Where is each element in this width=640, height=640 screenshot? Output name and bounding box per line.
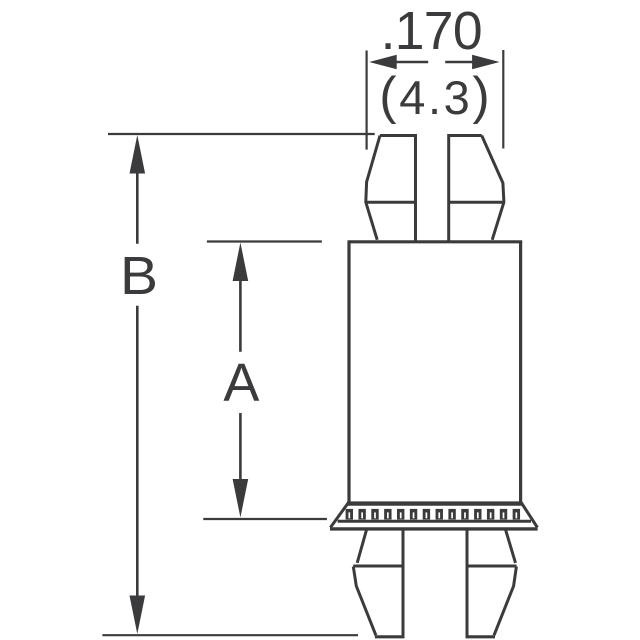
bottom leg right inner edge xyxy=(466,529,469,637)
flange serration teeth xyxy=(346,509,520,520)
A dimension arrowhead bottom xyxy=(233,479,249,518)
extension line top of B dimension xyxy=(108,133,375,135)
A dimension line upper shaft xyxy=(239,280,242,352)
B dimension arrowhead top xyxy=(130,135,146,174)
spacer body right edge xyxy=(519,242,522,503)
bottom leg right bottom edge xyxy=(466,635,496,638)
dimension line .170 left segment xyxy=(395,61,428,64)
spacer body left edge xyxy=(347,242,350,503)
extension line right of .170 dimension xyxy=(502,50,504,149)
arrowhead right of .170 dimension xyxy=(472,55,500,69)
bottom leg left barb ledge xyxy=(353,565,403,568)
bottom leg left lower outer edge xyxy=(353,567,376,636)
B dimension line upper shaft xyxy=(136,172,139,244)
spacer body top edge xyxy=(348,240,523,243)
svg-text:B: B xyxy=(120,246,158,306)
flange top band (body bottom edge) xyxy=(347,501,522,505)
flange serration tooth slits xyxy=(348,512,517,518)
bottom leg left neck outer edge xyxy=(357,530,366,563)
flange right slant edge xyxy=(521,503,537,528)
top prong right barb ledge xyxy=(449,201,504,204)
flange bottom edge xyxy=(330,527,538,530)
B dimension line lower shaft xyxy=(136,306,139,597)
top prong right outline xyxy=(449,136,504,242)
extension line top of A dimension xyxy=(207,240,322,242)
dimension line .170 right segment xyxy=(445,61,474,64)
svg-text:.170: .170 xyxy=(381,2,483,61)
svg-text:(4.3): (4.3) xyxy=(379,67,492,125)
flange mid line under teeth xyxy=(338,520,531,523)
bottom leg right neck outer edge xyxy=(506,530,516,563)
top prong left outline xyxy=(366,136,416,242)
top prong left barb ledge xyxy=(366,201,416,204)
bottom leg left bottom edge xyxy=(375,635,405,638)
svg-text:A: A xyxy=(223,353,259,413)
bottom leg right barb ledge xyxy=(467,565,517,568)
arrowhead left of .170 dimension xyxy=(369,55,397,69)
A dimension line lower shaft xyxy=(239,413,242,480)
extension line left of .170 dimension xyxy=(366,51,368,150)
extension line bottom of A dimension xyxy=(203,518,327,520)
bottom leg left inner edge xyxy=(402,529,405,637)
extension line bottom of B dimension xyxy=(102,634,358,636)
B dimension arrowhead bottom xyxy=(130,596,146,635)
bottom leg right lower outer edge xyxy=(494,567,516,636)
A dimension arrowhead top xyxy=(233,243,249,282)
flange left slant edge xyxy=(330,503,348,528)
